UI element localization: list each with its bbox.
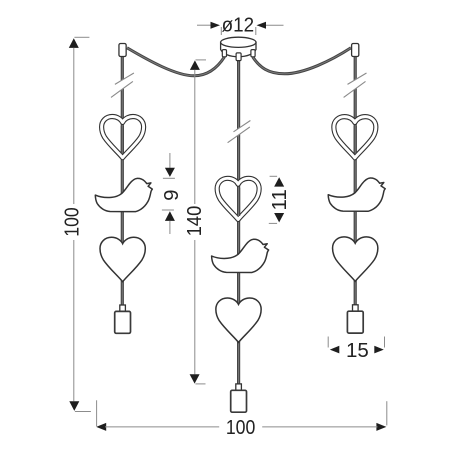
wire: right vertical drop (354, 54, 357, 305)
wire: middle vertical drop (237, 58, 240, 384)
bird right (328, 178, 385, 211)
wire: left catenary from canopy to left ferrule (127, 48, 225, 76)
dimension 140 (middle drop height) (183, 60, 206, 384)
dimension 100 (left overall height) (61, 37, 91, 411)
break mark on middle cable (228, 121, 251, 143)
svg-text:9: 9 (160, 189, 183, 200)
svg-text:140: 140 (183, 206, 206, 237)
dimension 15 (bird width) (328, 337, 384, 362)
solid heart middle (single outline) (216, 298, 261, 342)
cable segment inside right double heart (354, 126, 357, 154)
canopy cable grips (222, 50, 226, 57)
svg-text:ø12: ø12 (222, 14, 255, 37)
bird middle (212, 239, 269, 272)
right cable ferrule (352, 44, 359, 57)
dimension 11 (middle heart height) (268, 176, 291, 223)
open wire heart middle (double outline) (217, 178, 259, 219)
wire: left vertical drop (121, 54, 124, 306)
wire: right catenary from canopy to right ferrule (253, 48, 351, 74)
svg-text:100: 100 (226, 416, 256, 439)
solid heart left (single outline) (100, 237, 145, 281)
open wire heart right (double outline) (334, 117, 376, 158)
cable segment inside middle double heart (237, 188, 240, 216)
dimension 100 (bottom width) (96, 400, 387, 439)
break mark on left cable (111, 73, 134, 97)
dimension 9 (bird height) (160, 153, 183, 234)
cable segment inside left double heart (121, 126, 124, 154)
svg-text:100: 100 (61, 207, 84, 237)
svg-text:15: 15 (346, 339, 369, 362)
solid heart right (single outline) (333, 237, 378, 281)
bird left (95, 178, 152, 211)
break mark on right cable (344, 73, 367, 97)
open wire heart left (double outline) (102, 117, 144, 158)
lamp socket middle (231, 384, 247, 412)
ceiling canopy cup (221, 37, 256, 60)
dimension o12 (canopy diameter) (197, 14, 284, 37)
lamp socket right (347, 305, 363, 333)
svg-text:11: 11 (268, 189, 291, 210)
lamp socket left (115, 305, 131, 333)
left cable ferrule (119, 44, 126, 57)
